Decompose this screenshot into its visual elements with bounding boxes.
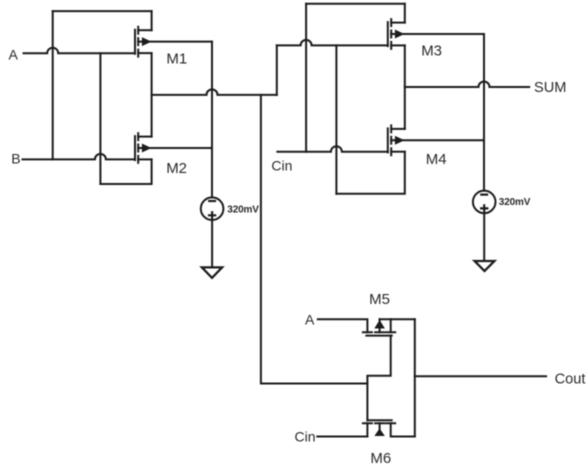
svg-text:M5: M5 <box>369 291 390 308</box>
svg-text:M1: M1 <box>166 50 187 67</box>
svg-text:M6: M6 <box>370 450 391 467</box>
svg-text:M2: M2 <box>166 160 187 177</box>
svg-text:B: B <box>11 151 20 167</box>
svg-text:Cin: Cin <box>295 428 316 444</box>
svg-text:M3: M3 <box>421 42 442 59</box>
svg-text:A: A <box>9 47 19 63</box>
svg-text:M4: M4 <box>426 151 447 168</box>
svg-text:320mV: 320mV <box>499 197 531 208</box>
svg-text:A: A <box>305 312 315 328</box>
svg-text:SUM: SUM <box>534 80 566 96</box>
svg-text:320mV: 320mV <box>227 204 259 215</box>
svg-text:Cout: Cout <box>555 371 586 387</box>
svg-text:Cin: Cin <box>271 158 292 174</box>
